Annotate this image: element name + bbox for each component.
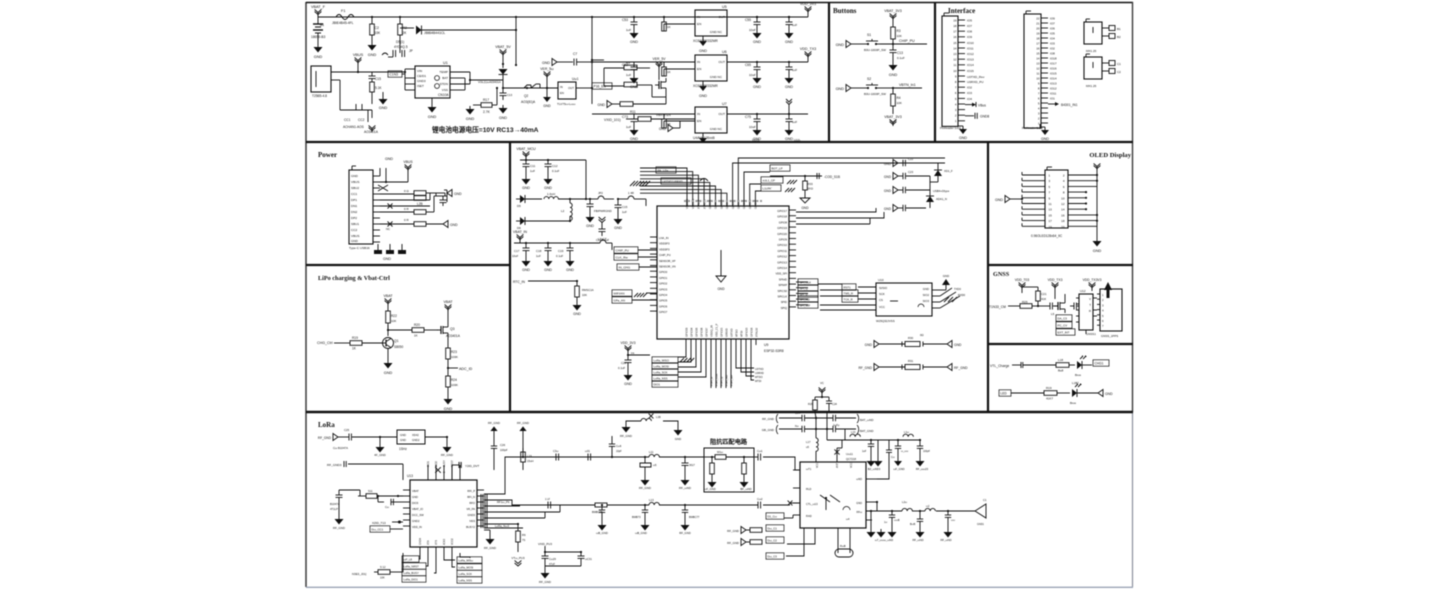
svg-text:GND: GND [384,371,393,375]
svg-text:V1X3: V1X3 [752,138,760,142]
ground under B1 [317,44,319,47]
svg-text:1K: 1K [414,334,418,338]
svg-text:RF_GND: RF_GND [858,366,872,370]
svg-text:12: 12 [1036,66,1040,70]
capacitor sw4 [888,440,890,450]
svg-text:IO9: IO9 [967,35,972,39]
svg-text:15uH: 15uH [527,459,533,463]
net label CHRG [1093,360,1109,366]
svg-text:SPID: SPID [781,300,787,304]
capacitor C11 [525,160,527,164]
transistor Q1 [383,338,394,349]
capacitor C31b tx [587,454,589,461]
svg-text:21: 21 [1036,21,1040,25]
svg-text:VDD2: VDD2 [451,538,454,545]
svg-text:TMS_R: TMS_R [844,292,853,296]
svg-text:GND: GND [544,268,552,272]
capacitor C20 [627,355,629,360]
svg-text:U13: U13 [407,474,413,478]
svg-text:DP2: DP2 [351,216,357,220]
svg-text:RF_GND: RF_GND [954,366,968,370]
svg-text:GND: GND [959,136,967,140]
svg-text:LoRa_BUSY: LoRa_BUSY [404,571,419,575]
svg-text:RF_GND: RF_GND [441,453,453,457]
svg-text:RTC_IN: RTC_IN [513,280,525,284]
svg-text:3617: 3617 [689,463,695,467]
ground C29 [544,570,546,573]
svg-text:STDN: STDN [440,82,448,86]
ground G3 [382,92,384,96]
svg-text:RF1ω_Pb: RF1ω_Pb [497,500,510,504]
ground center pad [720,250,722,276]
svg-text:IO5: IO5 [967,18,972,22]
svg-text:LoRa_MOSI: LoRa_MOSI [459,566,474,570]
wire u14 top rail [827,439,920,441]
svg-text:IO11: IO11 [1050,91,1057,95]
resistor R5 cc [414,191,426,196]
svg-text:XTA: XTA [427,540,430,545]
svg-text:ADC_ID: ADC_ID [459,367,473,371]
jumper JP4 [600,240,606,243]
capacitor C out1 U6 [756,62,758,67]
wire reg rail in [592,61,695,63]
svg-text:IO5: IO5 [1050,31,1055,35]
svg-text:U0TXDˉU0RXD: U0TXDˉU0RXD [663,180,683,184]
svg-text:20: 20 [1061,225,1065,229]
svg-text:GND: GND [884,175,892,179]
svg-text:GND: GND [566,268,574,272]
resistor R2 [399,17,401,24]
svg-text:VBAT: VBAT [383,294,393,298]
capacitor bat1 [801,415,803,421]
svg-text:1.0uH: 1.0uH [547,192,555,196]
svg-text:1K: 1K [667,25,671,29]
resistor R22 [387,330,389,336]
svg-text:ADA1_N: ADA1_N [936,197,947,201]
svg-text:BZ_ωND3: BZ_ωND3 [868,467,881,471]
svg-text:GND: GND [454,192,462,196]
ground reg U5 [702,38,704,41]
capacitor C13 [892,44,894,50]
svg-text:GPIO13: GPIO13 [777,260,787,264]
svg-text:C7: C7 [573,52,577,56]
svg-text:GND: GND [675,437,681,441]
svg-text:C1N3: C1N3 [390,73,399,77]
svg-text:Cω6: Cω6 [616,444,622,448]
svg-text:OUT: OUT [718,112,725,116]
svg-text:GPIO9: GPIO9 [779,238,788,242]
svg-text:GND: GND [450,223,458,227]
svg-text:MTDO: MTDO [755,375,763,379]
ground cap in U6 [633,75,635,78]
svg-text:GND8: GND8 [980,115,989,119]
svg-text:14: 14 [1036,56,1040,60]
svg-text:GPIO7: GPIO7 [659,310,668,314]
svg-text:Cω2: Cω2 [757,497,763,501]
ground under R24 [447,396,449,399]
svg-text:C1: C1 [1117,62,1121,66]
svg-text:SENSOR_VP: SENSOR_VP [659,259,676,263]
svg-text:GND: GND [1041,137,1049,141]
svg-text:IN: IN [560,85,563,89]
svg-text:VXID_101): VXID_101) [604,118,621,122]
resistor R3 [370,82,375,92]
J3 arrow vbus [965,104,972,106]
svg-text:Interface: Interface [948,7,975,15]
net label CHIP_PU mcu [614,247,638,253]
svg-text:C19: C19 [558,249,564,253]
wires bottom pins c [736,345,754,368]
ground sensor [576,302,578,305]
svg-text:1uF: 1uF [862,450,867,453]
svg-text:BMBC77: BMBC77 [689,515,700,519]
svg-text:R4: R4 [897,96,901,100]
svg-text:GPIO12: GPIO12 [777,255,787,259]
svg-text:Buttons: Buttons [833,7,857,15]
svg-text:GPIO37: GPIO37 [704,327,708,337]
wire usb cluster [929,176,931,190]
svg-text:VBTN_In1: VBTN_In1 [899,83,916,87]
svg-text:RF_GND: RF_GND [333,526,345,530]
svg-text:11: 11 [953,63,956,67]
wire pin bus up [379,168,381,176]
nc mark [388,222,393,227]
capacitor C19 [569,243,571,248]
svg-text:Q3: Q3 [450,327,455,331]
svg-text:GND: GND [884,189,892,193]
usb connector CN1 [311,66,331,92]
svg-text:R11: R11 [630,110,636,114]
ground under C13 [892,62,894,65]
svg-text:18: 18 [953,24,957,28]
svg-text:IN: IN [697,15,700,19]
inductor L18 [850,434,860,437]
svg-text:AO3(81)A: AO3(81)A [521,100,536,104]
svg-text:CE/D1: CE/D1 [417,74,426,78]
svg-text:T1N33_CM: T1N33_CM [989,305,1006,309]
resistor R en U5 [663,17,665,22]
svg-text:SPICLK: SPICLK [777,295,787,299]
connector CN2 typeC [349,170,373,244]
transistor Q3 pmos [440,326,442,334]
svg-text:VC: VC [820,381,824,385]
svg-text:GND: GND [801,206,809,210]
resistor R34 loop [837,528,839,549]
op-amp U10 flash [876,283,932,316]
boxed labels u13 bottom col2 [457,557,482,563]
svg-text:GND: GND [884,207,892,211]
net label SVN [612,297,632,303]
border divider interface left x=935 [934,2,936,142]
svg-text:SPI_WP: SPI_WP [800,304,811,308]
svg-text:GND: GND [368,53,377,57]
svg-text:ω_ωω: ω_ωω [901,450,908,453]
wire rx chain [520,504,595,506]
capacitor sw3 [919,440,921,446]
svg-text:RFω: RFω [857,510,862,514]
svg-text:Dω_C3: Dω_C3 [768,555,778,559]
svg-text:VBUS: VBUS [353,53,364,57]
svg-text:GPIO11: GPIO11 [777,249,787,253]
svg-text:OUT: OUT [718,15,725,19]
capacitor C25 [348,434,350,441]
svg-text:RF_GND: RF_GND [539,580,551,584]
svg-text:C65: C65 [745,63,751,67]
svg-text:MX1.25: MX1.25 [1086,49,1097,53]
ground U13 right [484,529,490,531]
svg-text:MTDI: MTDI [739,330,743,337]
svg-text:Uω1: Uω1 [572,77,579,81]
svg-text:VDD_TX3V3: VDD_TX3V3 [1083,278,1102,282]
svg-text:CHIP_PU: CHIP_PU [899,39,915,43]
svg-text:CC2: CC2 [358,118,365,122]
capacitor sw2 [897,440,899,446]
svg-text:B4301_IN1: B4301_IN1 [1061,103,1078,107]
svg-text:DIO1: DIO1 [654,383,661,387]
svg-text:C18: C18 [536,249,542,253]
diode D6 [516,220,520,222]
svg-text:10K: 10K [375,31,382,35]
capacitor rx shunt0 [601,505,603,510]
capacitor C6 [502,88,504,93]
battery B1 [317,17,319,24]
capacitor C24 [828,397,830,401]
capacitor C15 [371,72,373,76]
ground C11 [525,176,527,179]
svg-text:GND: GND [385,157,393,161]
svg-text:IO18: IO18 [1050,56,1057,60]
net label D1_C0 a [766,513,784,519]
svg-text:LNA_IN: LNA_IN [659,236,668,240]
svg-text:1uF: 1uF [792,68,797,72]
svg-text:VBAT_F: VBAT_F [311,5,326,9]
svg-text:IO8: IO8 [967,30,972,34]
svg-text:U0RXD: U0RXD [755,371,764,375]
U9 bottom pins [685,339,687,345]
svg-text:VDDQ_26: VDDQ_26 [709,325,713,337]
svg-text:GND: GND [383,257,391,261]
svg-text:SPIQ: SPIQ [781,306,787,310]
oled left wires [1022,174,1045,176]
border matching box [704,448,754,492]
connector CN4 [1084,57,1102,79]
svg-text:R19: R19 [352,336,358,340]
svg-text:V: V [1089,297,1091,301]
svg-text:WIFI/AN: WIFI/AN [614,292,625,296]
svg-text:GPIO21: GPIO21 [719,327,723,337]
capacitor tx shunt1 [644,457,646,463]
svg-text:LoRa: LoRa [318,421,335,429]
svg-text:GND: GND [785,137,793,141]
svg-text:GND: GND [543,104,551,108]
resistor R21 gnss [1036,291,1041,301]
ground C12B [589,214,591,217]
svg-text:IO12: IO12 [1050,86,1057,90]
svg-text:VBAT_5V: VBAT_5V [495,45,511,49]
svg-text:SI/SIO: SI/SIO [879,286,888,290]
capacitor C in U6 [633,62,635,67]
svg-text:R24: R24 [451,378,457,382]
op-amp U14 rf switch [800,462,866,528]
svg-text:C13: C13 [507,93,513,97]
svg-text:AO3401A: AO3401A [364,130,379,134]
capacitor ant shunt3 [947,511,949,515]
svg-text:U0TXD_Rev: U0TXD_Rev [967,75,985,79]
ground ant shunt3 [947,529,949,532]
svg-text:VDD_T03: VDD_T03 [1015,278,1030,282]
svg-text:JP: JP [409,49,413,53]
net label BTN [893,87,922,89]
svg-text:SIO2: SIO2 [923,293,930,297]
svg-text:0.1uF: 0.1uF [556,254,563,258]
wire bus left x592 [591,17,593,104]
svg-text:DA_C3: DA_C3 [1058,317,1068,321]
svg-text:MTDI: MTDI [755,379,762,383]
svg-text:BOT_LP: BOT_LP [772,167,783,171]
svg-text:GND: GND [597,103,605,107]
svg-text:GPIO19: GPIO19 [777,226,787,230]
border divider power/lipo y=265 [306,264,510,266]
svg-text:CTL_ω13: CTL_ω13 [806,502,818,506]
ground tx shunt2 [684,477,686,480]
resistor R1 [371,17,373,24]
svg-text:U0TXD: U0TXD [729,328,733,337]
ground under R17 [469,106,471,109]
capacitor gnss [1049,303,1051,310]
svg-text:IO7: IO7 [1050,21,1055,25]
capacitor C26 [493,442,495,446]
svg-text:VIN: VIN [417,69,422,73]
capacitor rx shunt2 [684,505,686,510]
svg-text:VBUS: VBUS [351,234,359,238]
svg-text:GND: GND [586,224,594,228]
svg-text:10ωF: 10ωF [833,411,840,414]
svg-text:GND: GND [522,268,530,272]
svg-text:SENSOR_VN: SENSOR_VN [659,265,676,269]
net label SVP [612,290,632,296]
svg-text:T25B5-4.8: T25B5-4.8 [312,94,327,98]
svg-text:VDD3P3: VDD3P3 [691,198,695,209]
svg-text:GPIO33: GPIO33 [684,327,688,337]
svg-text:Uω11: Uω11 [846,452,853,456]
resistor R19 base [350,341,362,346]
svg-text:IO12: IO12 [967,52,974,56]
svg-text:GND: GND [659,127,667,131]
op-amp U9 esp32 body [657,206,789,339]
svg-text:GPIO18: GPIO18 [777,215,787,219]
svg-text:Q2: Q2 [524,94,528,98]
svg-text:BAT_GND: BAT_GND [860,429,873,433]
svg-text:CHIP_PU: CHIP_PU [616,249,629,253]
svg-text:GPIO34: GPIO34 [689,327,693,337]
inductor L19 [522,448,524,452]
U14 right stubs [866,478,877,480]
svg-text:GPIO8: GPIO8 [779,220,788,224]
svg-text:1 LF: 1 LF [545,498,550,501]
svg-text:18: 18 [1036,36,1040,40]
svg-text:LoRa_SCK: LoRa_SCK [654,371,668,375]
ground out2 U7 [788,127,790,130]
svg-text:1ω: 1ω [884,521,887,524]
ground RM2 [711,479,713,482]
svg-text:GND: GND [542,61,550,65]
svg-text:EN: EN [697,119,701,123]
svg-text:IO14: IO14 [967,63,974,67]
svg-text:GND: GND [400,433,406,437]
net label CHG_EN [388,71,402,77]
wire reg rail in [592,113,695,115]
svg-text:GPIO5: GPIO5 [659,299,668,303]
border divider top-row bottom y=142 [306,141,1133,143]
capacitor C12B [589,198,591,200]
capacitor C out2 U5 [788,17,790,22]
svg-text:U12: U12 [1080,289,1086,293]
svg-text:15: 15 [953,41,957,45]
svg-text:CN10A: CN10A [438,93,449,97]
svg-text:VBAT_3V3: VBAT_3V3 [884,115,902,119]
svg-text:EN: EN [697,22,701,26]
connector J5 oled [1045,170,1068,228]
svg-text:XTAL32: XTAL32 [754,327,758,337]
svg-text:JP2: JP2 [598,191,603,195]
svg-text:1uF: 1uF [792,120,797,124]
wire collector to gate [388,329,412,331]
resistor R9 [624,65,637,70]
svg-text:Bros: Bros [1075,373,1081,377]
svg-text:GND: GND [1093,249,1102,253]
ground under R1 [371,42,373,45]
svg-text:C1: C1 [983,498,987,502]
svg-text:GND: GND [836,43,845,47]
regulator IC U5 [695,10,727,36]
capacitor C in U5 [633,17,635,22]
svg-text:VBUS: VBUS [351,180,359,184]
svg-text:VCC2: VCC2 [850,461,853,468]
svg-text:GND: GND [466,117,475,121]
op-amp U2 ldo [558,82,576,99]
resistor R25 gnss [1020,304,1032,309]
svg-text:100K: 100K [451,383,458,387]
svg-text:GND: GND [314,55,323,59]
svg-text:Cω B1047A: Cω B1047A [333,446,348,450]
svg-text:GND: GND [954,343,962,347]
svg-text:100pF: 100pF [923,450,931,453]
svg-text:U0RXD: U0RXD [724,328,728,337]
svg-text:IN_CHG: IN_CHG [619,266,631,270]
svg-text:IO9: IO9 [1050,16,1055,20]
svg-text:Dω_C2: Dω_C2 [768,539,778,543]
svg-text:SPIWP: SPIWP [778,283,787,287]
svg-text:IO15: IO15 [1050,71,1057,75]
U14 left stubs [793,469,800,471]
resistor R en U7 [663,114,665,119]
svg-text:RF_GND: RF_GND [727,541,739,545]
svg-text:S11: S11 [368,489,373,493]
svg-text:Cω: Cω [891,456,895,459]
svg-text:ωF_GND: ωF_GND [704,487,716,491]
svg-text:L3VCT: L3VCT [598,237,607,241]
svg-text:0.1uF: 0.1uF [897,56,905,60]
svg-text:41K: 41K [1041,297,1046,301]
wires into U13 top [427,465,429,480]
svg-text:13: 13 [1036,61,1040,65]
ground flag U10 top [945,285,947,290]
svg-text:R19: R19 [1046,386,1052,390]
svg-text:VXID_PU3: VXID_PU3 [538,542,552,546]
resistor R18 [1056,363,1069,368]
wire usb to node [348,71,405,73]
net label LoRa_NSS wire [484,505,520,507]
